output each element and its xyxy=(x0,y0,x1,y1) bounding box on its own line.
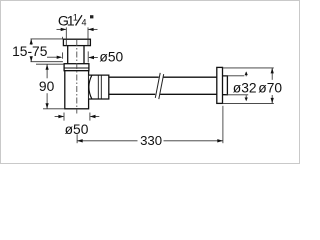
olive (outlet curve) xyxy=(89,75,92,99)
dimension 330 left extension xyxy=(76,134,78,143)
svg-text:ø32: ø32 xyxy=(233,81,257,96)
dimension 330 line and arrows xyxy=(77,139,223,142)
dimension diameter 32 top arrow xyxy=(245,71,248,76)
body coupling nut xyxy=(64,64,89,71)
outlet pipe bottom wall xyxy=(109,93,217,95)
dimension G1 1/4 extension left xyxy=(65,27,67,39)
dimension 90 top extension xyxy=(36,63,64,65)
dimension 330 right extension xyxy=(222,106,224,143)
label G1 1/4 inch xyxy=(58,13,94,30)
dimension 90 line and arrows xyxy=(46,64,49,109)
dimension 90 bottom extension xyxy=(43,108,65,110)
dimension diameter 32 bottom arrow xyxy=(245,95,248,101)
tailpiece tube xyxy=(68,46,84,64)
svg-text:4: 4 xyxy=(82,17,87,27)
nut joint line xyxy=(64,67,89,69)
svg-text:ø70: ø70 xyxy=(258,81,282,96)
dimension top diameter 50 arrow xyxy=(88,56,97,59)
dimension 15-75 pointer arrow xyxy=(47,52,63,59)
svg-text:15-75: 15-75 xyxy=(12,44,48,59)
trap body (bottle) xyxy=(65,71,89,109)
dimension bottom diameter 50 left arrow xyxy=(55,115,64,118)
dimension G1 1/4 left arrow xyxy=(57,28,67,31)
dimension 15-75 line and arrows xyxy=(30,39,33,62)
centerline (vertical axis of trap) xyxy=(76,40,78,114)
wall stub pipe xyxy=(223,76,228,95)
dimension diameter 70 line and arrows xyxy=(271,68,274,104)
outlet nut chamfer line 2 xyxy=(100,75,102,99)
dimension diameter 70 top extension xyxy=(223,67,274,69)
wall flange (escutcheon) xyxy=(217,67,223,103)
thread line right xyxy=(87,40,89,46)
dimension bottom diameter 50 right arrow xyxy=(90,115,99,118)
thread line left xyxy=(65,40,67,46)
dimension diameter 32 bottom extension xyxy=(226,94,249,96)
dimension diameter 32 top extension xyxy=(227,75,245,77)
svg-text:ø50: ø50 xyxy=(65,122,89,137)
outlet pipe top wall xyxy=(109,76,217,78)
dimension bottom diameter 50 left extension xyxy=(63,113,65,121)
svg-text:ø50: ø50 xyxy=(99,50,123,65)
dimension G1 1/4 right arrow xyxy=(88,28,98,31)
outlet nut chamfer line 1 xyxy=(97,75,99,99)
dimension bottom diameter 50 right extension xyxy=(89,113,91,121)
svg-text:90: 90 xyxy=(39,79,55,94)
inlet nut (top flange) xyxy=(63,39,90,45)
svg-text:1: 1 xyxy=(73,13,78,23)
dimension G1 1/4 extension right xyxy=(87,27,89,39)
dimension 15-75 bottom extension xyxy=(31,61,63,63)
frame border xyxy=(1,1,300,164)
svg-text:330: 330 xyxy=(140,133,162,148)
dimension diameter 70 bottom extension xyxy=(223,102,274,104)
dimension top diameter 50 extension xyxy=(87,51,89,62)
outlet nut xyxy=(89,75,109,99)
pipe break symbol xyxy=(155,73,163,99)
dimension 15-75 top extension xyxy=(31,37,63,40)
